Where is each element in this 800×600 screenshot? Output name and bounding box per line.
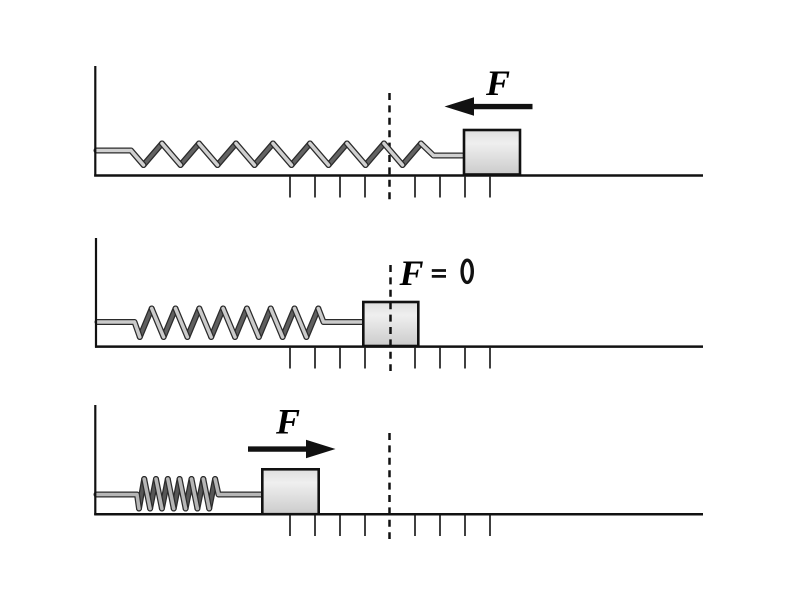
block 3	[262, 469, 318, 514]
ticks 3	[290, 515, 490, 536]
ticks 2	[290, 348, 490, 369]
dashed line 1	[388, 93, 391, 201]
svg-text:F: F	[485, 63, 510, 103]
dashed line 3	[388, 433, 391, 539]
equals sign	[432, 269, 446, 278]
spring 3	[139, 479, 215, 509]
block 2	[363, 302, 418, 346]
force arrow 3 (right)	[248, 440, 336, 458]
wall 2	[95, 238, 97, 348]
zero digit	[462, 260, 472, 282]
force arrow 1 (left)	[445, 97, 533, 115]
spring 2	[140, 309, 318, 338]
ticks 1	[290, 177, 490, 198]
dashed line 2 (over block)	[389, 265, 392, 371]
wall 3	[94, 405, 96, 515]
svg-text:F: F	[398, 253, 423, 293]
floor 1	[94, 174, 703, 177]
wall 1	[94, 66, 96, 177]
block 1	[464, 130, 520, 175]
floor 2	[95, 345, 703, 348]
floor 3	[94, 513, 703, 516]
svg-text:F: F	[275, 402, 300, 442]
spring 1	[144, 144, 422, 166]
